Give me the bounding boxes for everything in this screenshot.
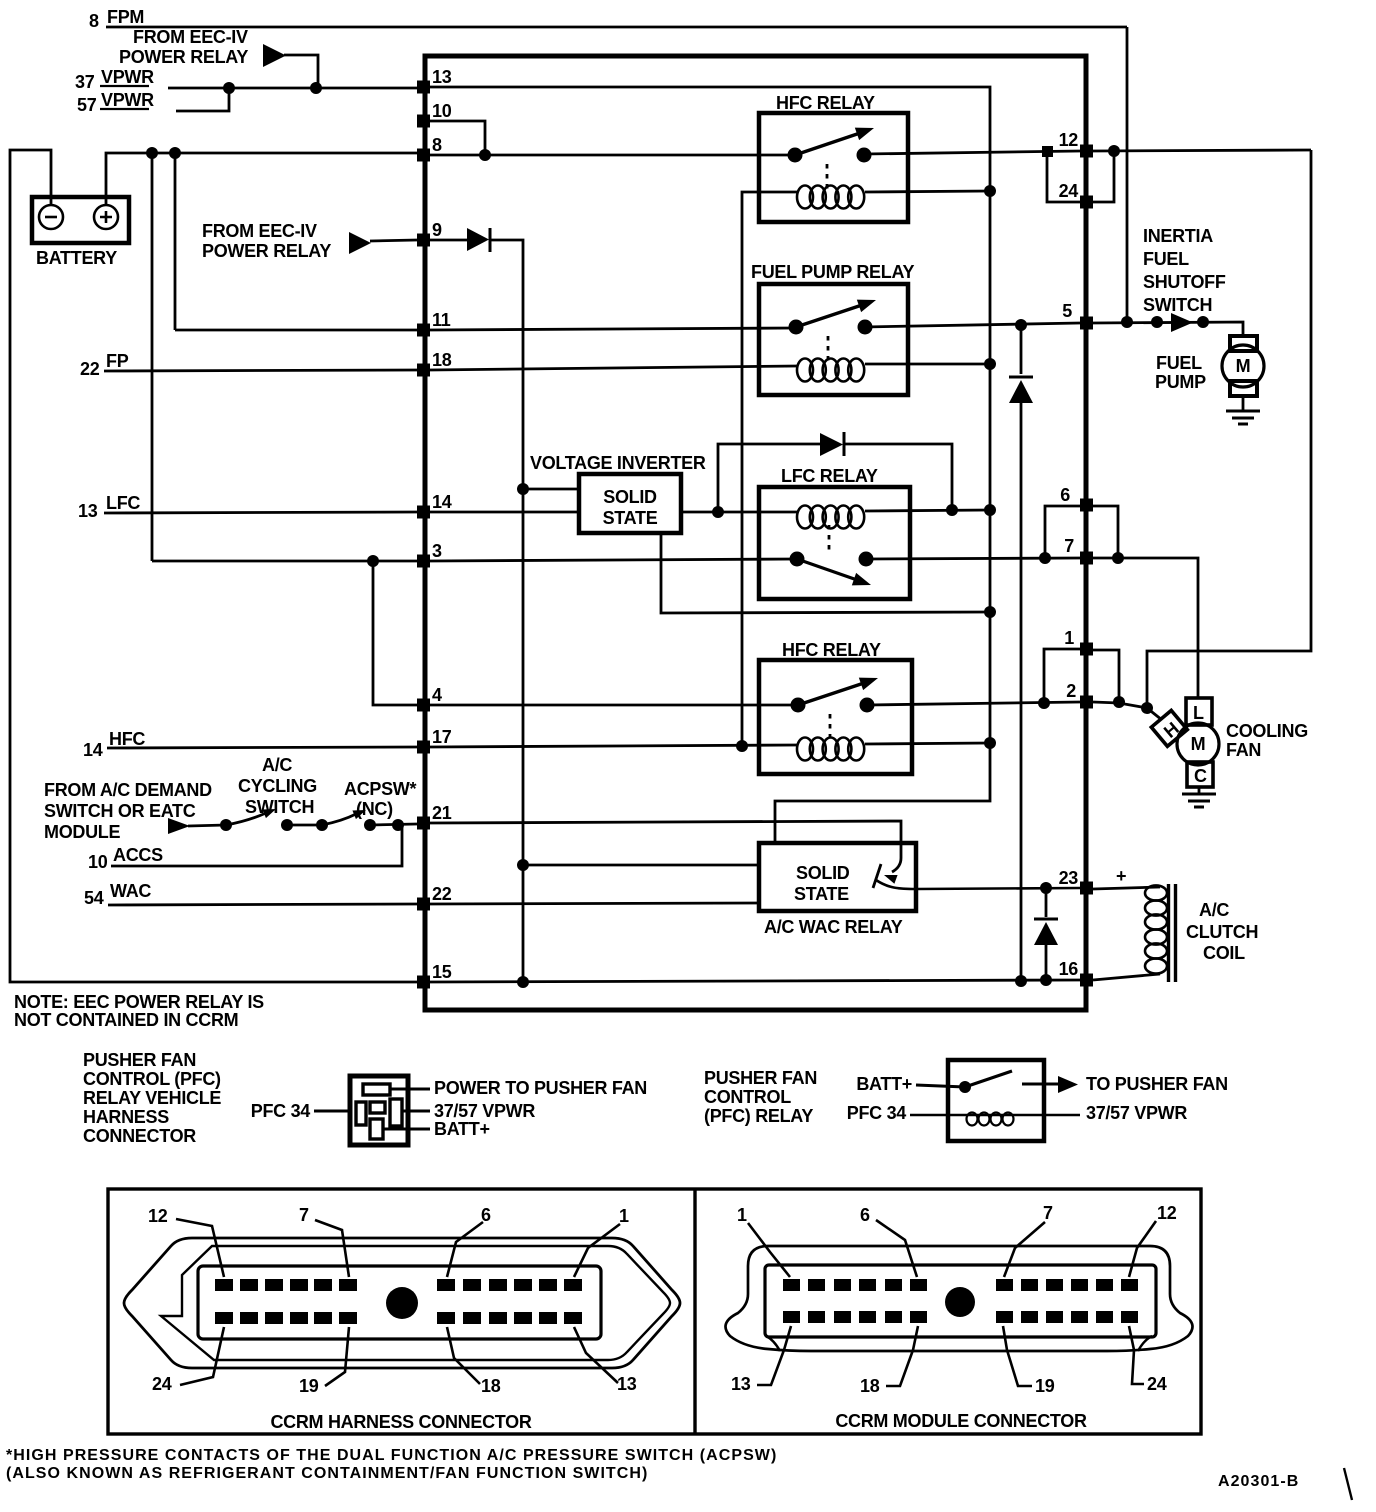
svg-text:HFC: HFC <box>109 729 145 749</box>
svg-text:13: 13 <box>731 1374 751 1394</box>
label A/C CYCLING SWITCH <box>238 755 317 817</box>
wire pin 7 to cooling fan L <box>1093 558 1198 698</box>
junction <box>712 506 724 518</box>
panel divider <box>693 1189 696 1434</box>
junction <box>984 606 996 618</box>
node VPWR pin 57 <box>77 90 154 115</box>
pin 11 (CCRM left) <box>417 310 451 337</box>
module connector pins <box>783 1279 1138 1323</box>
svg-text:FROM EEC-IV: FROM EEC-IV <box>133 27 248 47</box>
wire FPM vertical down to pin 5 net <box>1126 27 1129 322</box>
pin 24 (CCRM right) <box>1059 181 1093 209</box>
wire PFC 34 through relay <box>910 1114 1080 1117</box>
wire diode bottom <box>1045 945 1048 980</box>
CCRM module box <box>425 56 1086 1010</box>
pin label 13 (module) <box>731 1326 791 1394</box>
node VPWR pin 37 <box>75 67 154 92</box>
wire pin 3 to LFC switch <box>430 559 797 561</box>
wire pin 8 to HFC relay contact <box>430 154 795 157</box>
relay FP link <box>827 336 830 361</box>
junction FPM tap <box>1121 316 1133 328</box>
svg-text:TO PUSHER FAN: TO PUSHER FAN <box>1086 1074 1228 1094</box>
node FP (pin 22 wire label) <box>80 351 129 379</box>
wire 37/57 VPWR <box>402 1110 430 1113</box>
switch HFC relay <box>788 122 877 163</box>
svg-text:HFC RELAY: HFC RELAY <box>776 93 875 113</box>
wire BATT+ to PFC relay <box>916 1085 965 1087</box>
pin label 12 (harness) <box>148 1206 224 1277</box>
wire inverter lower output to rail <box>661 533 990 613</box>
junction <box>1015 319 1027 331</box>
junction <box>946 504 958 516</box>
pin 3 (CCRM left) <box>417 541 442 568</box>
junction <box>479 149 491 161</box>
pin 18 (CCRM left) <box>417 350 452 377</box>
junction <box>1113 696 1125 708</box>
pin 21 (CCRM left) <box>417 803 452 830</box>
wire PFC relay output <box>1022 1083 1058 1086</box>
svg-text:CCRM HARNESS CONNECTOR: CCRM HARNESS CONNECTOR <box>270 1412 531 1432</box>
svg-text:MODULE: MODULE <box>44 822 120 842</box>
svg-text:PFC 34: PFC 34 <box>251 1101 311 1121</box>
harness connector pin field <box>198 1266 601 1339</box>
svg-text:16: 16 <box>1059 959 1079 979</box>
svg-text:37: 37 <box>75 72 95 92</box>
pin 2 (CCRM right) <box>1066 681 1093 709</box>
label ACPSW* (NC) <box>344 779 416 819</box>
CCRM harness connector outline <box>124 1238 680 1368</box>
wire FP to pin 18 <box>104 370 417 371</box>
junction <box>1015 975 1027 987</box>
wire pin 24 bracket outside <box>1093 151 1114 202</box>
pin label 18 (harness) <box>447 1327 501 1396</box>
svg-text:LFC RELAY: LFC RELAY <box>781 466 878 486</box>
svg-text:18: 18 <box>481 1376 501 1396</box>
wire pin 13 VPWR rail <box>430 87 990 843</box>
svg-text:FROM EEC-IV: FROM EEC-IV <box>202 221 317 241</box>
svg-text:*HIGH PRESSURE CONTACTS OF THE: *HIGH PRESSURE CONTACTS OF THE DUAL FUNC… <box>6 1447 777 1464</box>
A/C clutch coil L1 <box>1145 884 1176 982</box>
svg-text:5: 5 <box>1062 301 1072 321</box>
svg-text:19: 19 <box>299 1376 319 1396</box>
svg-text:6: 6 <box>860 1205 870 1225</box>
svg-text:24: 24 <box>1059 181 1079 201</box>
wire EEC relay feed to VPWR line <box>284 55 318 88</box>
svg-text:17: 17 <box>432 727 452 747</box>
svg-text:FUEL: FUEL <box>1156 353 1202 373</box>
svg-text:(ALSO KNOWN AS REFRIGERANT CON: (ALSO KNOWN AS REFRIGERANT CONTAINMENT/F… <box>6 1465 648 1482</box>
svg-text:FP: FP <box>106 351 129 371</box>
switch HFC relay 2 <box>791 672 881 713</box>
junction <box>1112 552 1124 564</box>
svg-text:COOLING: COOLING <box>1226 721 1308 741</box>
wire 57 VPWR join <box>176 88 229 111</box>
CCRM module connector outline <box>726 1246 1193 1351</box>
label FUEL PUMP <box>1155 353 1206 392</box>
wire EEC relay to pin 9 <box>370 240 417 241</box>
wire A/C demand to cycling switch <box>188 825 226 826</box>
wire pin 18 to fuel pump relay coil <box>430 366 797 370</box>
svg-text:CLUTCH: CLUTCH <box>1186 922 1258 942</box>
svg-text:PUSHER FAN: PUSHER FAN <box>83 1050 196 1070</box>
svg-text:PFC 34: PFC 34 <box>847 1103 907 1123</box>
svg-text:HFC RELAY: HFC RELAY <box>782 640 881 660</box>
svg-text:BATT+: BATT+ <box>856 1074 912 1094</box>
pin 8 (CCRM left) <box>417 135 442 162</box>
svg-text:3: 3 <box>432 541 442 561</box>
drawing number A20301-B <box>1218 1468 1352 1500</box>
pin label 13 (harness) <box>574 1327 637 1394</box>
svg-text:18: 18 <box>860 1376 880 1396</box>
relay LFC link <box>828 525 831 551</box>
wire pin 4 to HFC relay 2 switch <box>430 704 798 707</box>
wire LFC diode left <box>718 444 820 512</box>
node LFC (pin 13 wire label) <box>78 493 140 521</box>
wire LFC diode right <box>844 444 952 510</box>
svg-text:SWITCH: SWITCH <box>245 797 314 817</box>
wire to voltage inverter input <box>523 488 579 491</box>
wire battery negative / outer ground loop <box>10 150 417 982</box>
label COOLING FAN <box>1226 721 1308 760</box>
svg-text:FUEL: FUEL <box>1143 249 1189 269</box>
wire WAC to pin 22 <box>108 904 417 905</box>
battery <box>32 197 129 268</box>
svg-text:2: 2 <box>1066 681 1076 701</box>
svg-text:15: 15 <box>432 962 452 982</box>
wire pin 24 bracket inside <box>1047 151 1080 202</box>
svg-text:NOT CONTAINED IN CCRM: NOT CONTAINED IN CCRM <box>14 1010 238 1030</box>
svg-text:19: 19 <box>1035 1376 1055 1396</box>
svg-text:CONNECTOR: CONNECTOR <box>83 1126 196 1146</box>
contact cycling switch left <box>220 819 232 831</box>
svg-text:VPWR: VPWR <box>101 90 154 110</box>
svg-text:24: 24 <box>152 1374 172 1394</box>
label FROM EEC-IV POWER RELAY (middle) <box>202 221 331 261</box>
svg-text:FUEL PUMP RELAY: FUEL PUMP RELAY <box>751 262 914 282</box>
svg-text:13: 13 <box>432 67 452 87</box>
wire pin 10 jumper to pin 8 net <box>430 121 485 155</box>
relay LFC (low fan) K3 <box>759 466 910 599</box>
wire PFC 34 to harness connector <box>314 1110 352 1113</box>
wire pin 5 to fuel pump <box>1093 322 1243 336</box>
wire pin 15 to pin 16 ground line <box>430 980 1080 982</box>
wire clutch coil to pin 16 <box>1093 974 1160 980</box>
junction <box>736 740 748 752</box>
wire diode to ground rail <box>1020 403 1023 981</box>
pin label 1 (module) <box>737 1205 790 1277</box>
junction <box>517 859 529 871</box>
svg-text:1: 1 <box>1064 628 1074 648</box>
pin 12 (CCRM right) <box>1059 130 1093 158</box>
relay HFC 2 (high fan) K4 <box>759 640 912 774</box>
coil fuel pump relay <box>797 359 864 382</box>
pin 23 (CCRM right) <box>1059 868 1093 895</box>
diode symbol (pin5 to ground) <box>1009 377 1033 403</box>
ground fuel pump <box>1226 411 1260 424</box>
switch LFC relay <box>790 552 874 592</box>
svg-text:SOLID: SOLID <box>796 863 850 883</box>
PFC relay coil <box>967 1113 1014 1126</box>
wire to pin 11 <box>175 329 417 332</box>
svg-text:10: 10 <box>88 852 108 872</box>
wire HFC1 coil to rail <box>865 191 990 192</box>
svg-text:37/57 VPWR: 37/57 VPWR <box>1086 1103 1187 1123</box>
coil HFC relay 2 <box>797 738 864 761</box>
junction <box>1038 697 1050 709</box>
pin label 7 (module) <box>1004 1203 1053 1277</box>
wire pin 1 bracket inside <box>1044 649 1080 703</box>
A/C WAC relay solid state module U2 <box>759 843 916 911</box>
voltage inverter solid state module U1 <box>579 474 681 533</box>
svg-text:NOTE: EEC POWER RELAY IS: NOTE: EEC POWER RELAY IS <box>14 992 264 1012</box>
wire inverter output to LFC coil <box>681 511 797 514</box>
arrow from A/C demand switch <box>168 818 190 834</box>
wire HFC2 coil to rail <box>865 743 990 744</box>
pin label 24 (module) <box>1129 1326 1167 1394</box>
pin label 1 (harness) <box>574 1206 629 1277</box>
wire pin 6 bracket outside <box>1093 506 1118 558</box>
ground cooling fan <box>1182 794 1216 807</box>
junction <box>1108 145 1120 157</box>
wire pin 21 to A/C WAC relay control <box>430 821 901 843</box>
pin label 12 (module) <box>1129 1203 1177 1277</box>
wire battery feed down to pin 11 net <box>174 153 177 330</box>
svg-text:STATE: STATE <box>603 508 658 528</box>
junction <box>1040 974 1052 986</box>
wire HFC to pin 17 <box>107 747 417 748</box>
contact ACPSW right <box>364 819 376 831</box>
relay fuel pump K2 <box>751 262 914 395</box>
coil LFC relay <box>797 506 864 529</box>
pin label 24 (harness) <box>152 1327 224 1394</box>
pin label 19 (harness) <box>299 1327 349 1396</box>
svg-text:24: 24 <box>1147 1374 1167 1394</box>
wire pin 6 bracket inside <box>1045 506 1080 558</box>
svg-text:LFC: LFC <box>106 493 140 513</box>
svg-text:CONTROL (PFC): CONTROL (PFC) <box>83 1069 221 1089</box>
svg-text:VPWR: VPWR <box>101 67 154 87</box>
pin 10 (CCRM left) <box>417 101 452 128</box>
svg-text:CONTROL: CONTROL <box>704 1087 791 1107</box>
svg-text:10: 10 <box>432 101 452 121</box>
wire LFC coil to VPWR rail <box>865 510 990 511</box>
junction <box>1141 702 1153 714</box>
contact ACPSW left <box>316 819 328 831</box>
svg-text:POWER RELAY: POWER RELAY <box>119 47 248 67</box>
wire to pin 3 <box>152 560 417 563</box>
footnote <box>6 1447 777 1482</box>
wire pin 22 to A/C WAC relay <box>430 903 759 904</box>
svg-text:A/C: A/C <box>262 755 292 775</box>
svg-text:23: 23 <box>1059 868 1079 888</box>
relay HFC link <box>826 164 829 189</box>
pin 4 (CCRM left) <box>417 685 442 712</box>
junction <box>984 358 996 370</box>
pin label 6 (module) <box>860 1205 917 1277</box>
pin 9 (CCRM left) <box>417 220 442 247</box>
relay HFC (high fan) K1 <box>759 93 908 222</box>
switch element inside A/C WAC relay <box>873 843 901 888</box>
svg-text:HARNESS: HARNESS <box>83 1107 169 1127</box>
svg-text:BATT+: BATT+ <box>434 1119 490 1139</box>
svg-text:7: 7 <box>1043 1203 1053 1223</box>
wire pin 2 to cooling fan H <box>1093 702 1147 708</box>
cooling fan motor M2 <box>1151 698 1219 787</box>
svg-text:C: C <box>1194 766 1207 786</box>
PFC harness connector J1 <box>350 1076 408 1145</box>
svg-text:L: L <box>1193 703 1204 723</box>
switch fuel pump relay <box>789 294 879 335</box>
svg-text:1: 1 <box>619 1206 629 1226</box>
svg-text:8: 8 <box>89 11 99 31</box>
svg-text:+: + <box>1116 866 1126 886</box>
svg-text:57: 57 <box>77 95 97 115</box>
junction <box>517 483 529 495</box>
svg-text:SWITCH: SWITCH <box>1143 295 1212 315</box>
wire pin 17 to HFC2 coil <box>430 745 797 747</box>
svg-text:6: 6 <box>1060 485 1070 505</box>
wire FPM to right <box>106 26 1127 29</box>
harness connector pins <box>215 1279 582 1324</box>
svg-text:SHUTOFF: SHUTOFF <box>1143 272 1226 292</box>
wire LFC to pin 14 <box>104 512 417 513</box>
pin 14 (CCRM left) <box>417 492 452 519</box>
label FROM A/C DEMAND SWITCH OR EATC MODULE <box>44 780 212 842</box>
svg-text:FROM A/C DEMAND: FROM A/C DEMAND <box>44 780 212 800</box>
wire pin 12 battery feed right <box>1093 150 1311 151</box>
svg-text:37/57 VPWR: 37/57 VPWR <box>434 1101 535 1121</box>
svg-text:21: 21 <box>432 803 452 823</box>
svg-text:M: M <box>1191 734 1206 754</box>
pin label 7 (harness) <box>299 1205 349 1277</box>
module connector pin field <box>765 1265 1156 1337</box>
wire BATT+ <box>383 1128 430 1131</box>
junction <box>1040 882 1052 894</box>
inertia fuel shutoff switch <box>1151 313 1209 332</box>
wire pin 23 to clutch coil <box>1093 887 1160 889</box>
pin 16 (CCRM right) <box>1059 959 1093 987</box>
junction <box>146 147 158 159</box>
pin 17 (CCRM left) <box>417 727 452 754</box>
pin 13 (CCRM left) <box>417 67 452 94</box>
wire FP coil to rail <box>865 363 990 366</box>
wire pin 9 to diode <box>430 239 467 242</box>
label A/C CLUTCH COIL <box>1186 900 1258 963</box>
junction <box>223 82 235 94</box>
svg-text:BATTERY: BATTERY <box>36 248 117 268</box>
junction <box>367 555 379 567</box>
svg-text:14: 14 <box>432 492 452 512</box>
svg-text:9: 9 <box>432 220 442 240</box>
svg-text:12: 12 <box>1059 130 1079 150</box>
label INERTIA FUEL SHUTOFF SWITCH <box>1143 226 1226 315</box>
pin label 6 (harness) <box>447 1205 491 1277</box>
wire HFC1 coil feed from pin 17 net <box>742 192 797 746</box>
junction <box>517 976 529 988</box>
svg-text:ACCS: ACCS <box>113 845 163 865</box>
svg-text:RELAY VEHICLE: RELAY VEHICLE <box>83 1088 221 1108</box>
PFC relay K5 <box>948 1060 1044 1141</box>
svg-text:(NC): (NC) <box>356 799 393 819</box>
node HFC (pin 14 wire label) <box>83 729 145 760</box>
arrow from EEC-IV power relay (top) <box>263 44 286 67</box>
wire pin 11 to fuel pump relay switch <box>430 328 796 330</box>
junction <box>310 82 322 94</box>
svg-text:A/C WAC RELAY: A/C WAC RELAY <box>764 917 903 937</box>
wire A/C WAC relay output to pin 23 <box>876 880 1080 889</box>
svg-text:18: 18 <box>432 350 452 370</box>
pin label 18 (module) <box>860 1326 918 1396</box>
contact cycling switch right <box>281 819 293 831</box>
label PUSHER FAN CONTROL (PFC) RELAY <box>704 1068 817 1126</box>
svg-text:13: 13 <box>617 1374 637 1394</box>
svg-text:1: 1 <box>737 1205 747 1225</box>
svg-text:COIL: COIL <box>1203 943 1245 963</box>
connector panel frame <box>108 1189 1201 1434</box>
junction <box>1039 552 1051 564</box>
svg-text:22: 22 <box>432 884 452 904</box>
wire pin 9 rail down <box>491 240 523 982</box>
svg-text:FAN: FAN <box>1226 740 1261 760</box>
wire fuel pump to ground <box>1242 396 1245 411</box>
coil HFC relay <box>797 186 864 209</box>
node WAC (pin 54 wire label) <box>84 881 151 908</box>
wire pin 1 bracket outside <box>1093 650 1119 702</box>
wire FP switch to pin 5 <box>864 323 1080 327</box>
svg-text:A20301-B: A20301-B <box>1218 1473 1299 1490</box>
svg-text:54: 54 <box>84 888 104 908</box>
svg-text:13: 13 <box>78 501 98 521</box>
wire 37 VPWR to pin 13 <box>168 87 421 90</box>
svg-text:4: 4 <box>432 685 442 705</box>
svg-text:POWER RELAY: POWER RELAY <box>202 241 331 261</box>
junction <box>984 185 996 197</box>
svg-text:CYCLING: CYCLING <box>238 776 317 796</box>
svg-text:14: 14 <box>83 740 103 760</box>
relay HFC2 link <box>829 714 832 739</box>
svg-text:VOLTAGE INVERTER: VOLTAGE INVERTER <box>530 453 706 473</box>
pin 15 (CCRM left) <box>417 962 452 989</box>
node FPM (pin 8 net label) <box>89 7 144 31</box>
pin 6 (CCRM right) <box>1060 485 1093 512</box>
svg-text:SOLID: SOLID <box>603 487 657 507</box>
svg-text:PUMP: PUMP <box>1155 372 1206 392</box>
svg-text:WAC: WAC <box>110 881 151 901</box>
svg-text:ACPSW*: ACPSW* <box>344 779 416 799</box>
pin 7 (CCRM right) <box>1064 536 1093 565</box>
svg-text:FPM: FPM <box>107 7 144 27</box>
svg-text:A/C: A/C <box>1199 900 1229 920</box>
arrow to pusher fan <box>1058 1076 1078 1093</box>
wire cycling switch to ACPSW <box>287 824 322 827</box>
node ACCS (pin 10 wire label) <box>88 845 163 872</box>
svg-text:PUSHER FAN: PUSHER FAN <box>704 1068 817 1088</box>
wire HFC1 switch to pin 12 <box>865 151 1080 154</box>
wire power to pusher fan <box>390 1088 430 1091</box>
svg-text:CCRM MODULE CONNECTOR: CCRM MODULE CONNECTOR <box>835 1411 1087 1431</box>
label PUSHER FAN CONTROL (PFC) RELAY VEHICLE HARNESS CONNECTOR <box>83 1050 221 1146</box>
svg-text:11: 11 <box>432 310 451 330</box>
wire pin3 net to pin 4 <box>373 561 417 705</box>
fuel pump motor M1 <box>1222 336 1264 396</box>
svg-text:SWITCH OR EATC: SWITCH OR EATC <box>44 801 196 821</box>
svg-text:8: 8 <box>432 135 442 155</box>
note text <box>14 992 264 1030</box>
junction <box>984 504 996 516</box>
wire pin 9 net to A/C WAC relay <box>523 864 759 867</box>
wire ACCS joining A/C demand line <box>111 827 402 866</box>
pin 1 (CCRM right) <box>1064 628 1093 656</box>
